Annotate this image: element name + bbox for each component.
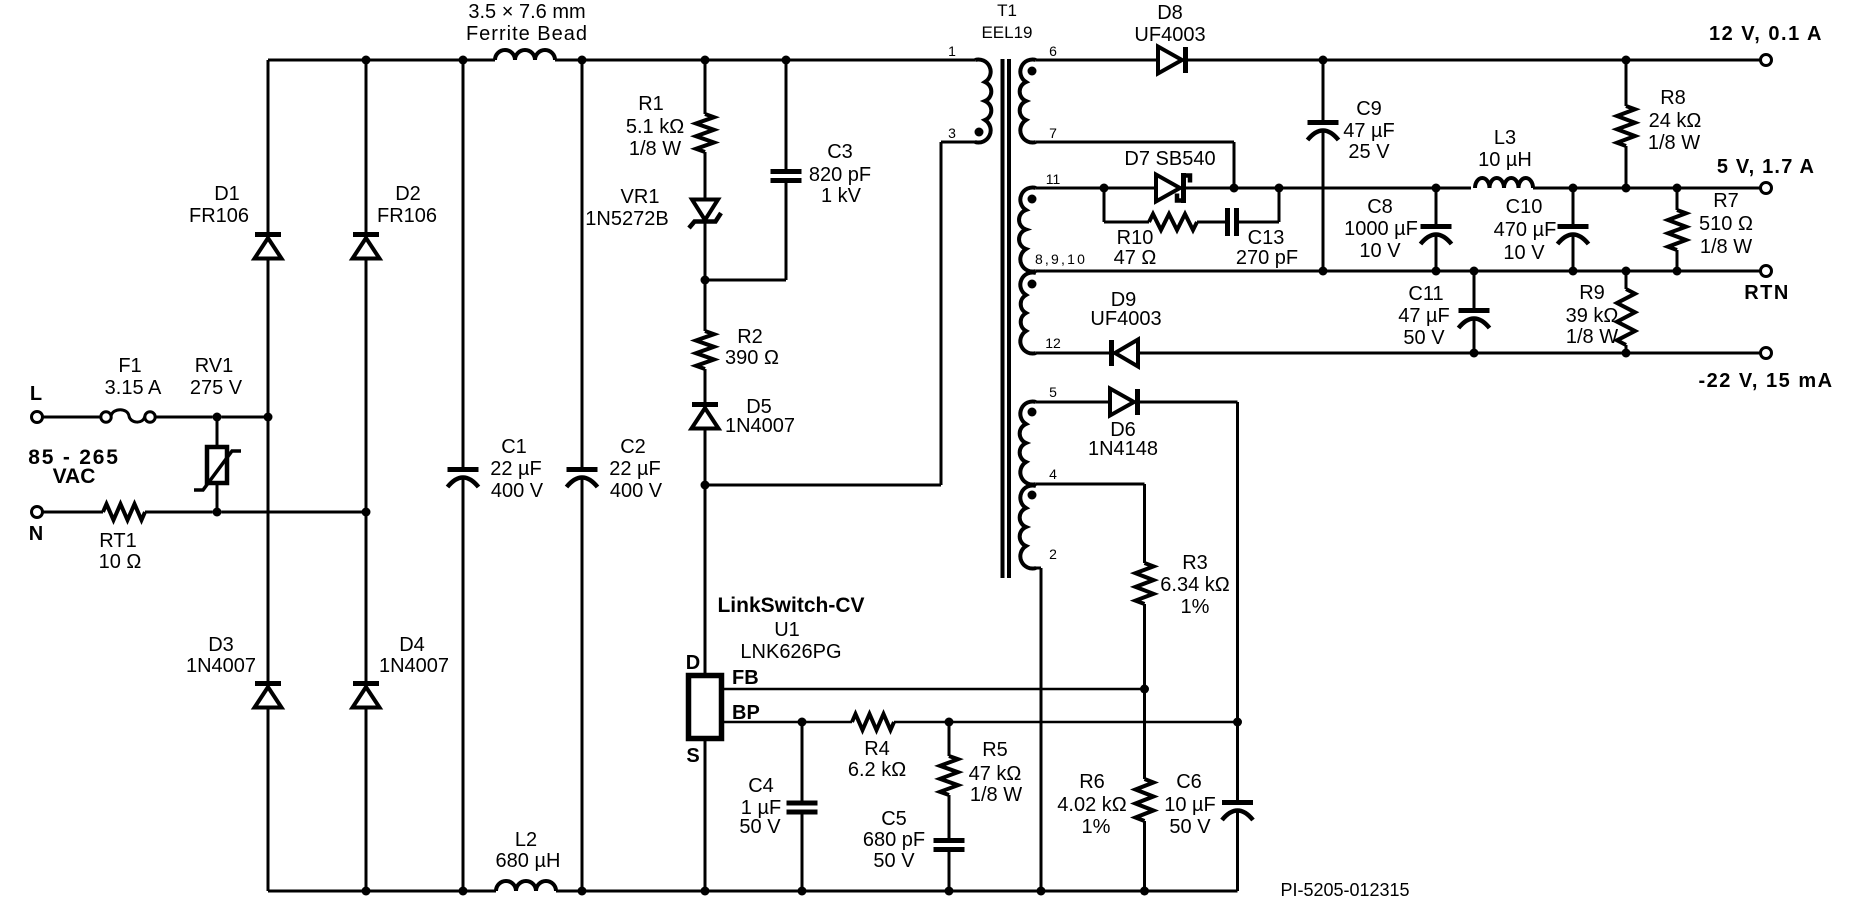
inductor L3 10 uH xyxy=(1475,178,1533,188)
capacitor C9 47 uF 25 V xyxy=(1308,120,1339,125)
svg-text:C6: C6 xyxy=(1176,771,1202,793)
resistor R2 390 ohm xyxy=(696,331,714,369)
svg-text:D3: D3 xyxy=(208,634,234,656)
junction bottom rail / C4 xyxy=(798,887,807,896)
junction 5 V rail / R8 bottom xyxy=(1622,184,1631,193)
junction 5 V rail / R7 xyxy=(1673,184,1682,193)
wire R8 bottom lead to 5 V rail xyxy=(1625,146,1628,188)
resistor R10 47 ohm xyxy=(1149,214,1197,230)
junction -22 V rail / C11 xyxy=(1470,349,1479,358)
terminal 12 V output xyxy=(1761,55,1772,66)
resistor R4 6.2 kohm xyxy=(852,714,894,730)
junction RTN / R9 xyxy=(1622,267,1631,276)
svg-text:47 kΩ: 47 kΩ xyxy=(969,763,1022,785)
inductor L2 680 uH xyxy=(496,881,556,891)
junction bottom rail / C5 xyxy=(945,887,954,896)
wire RV1 bottom lead xyxy=(216,483,219,512)
wire R6 top lead xyxy=(1143,689,1146,779)
wire C10 top lead xyxy=(1572,188,1575,224)
wire pin 6 to D8 xyxy=(1036,59,1158,62)
svg-text:R6: R6 xyxy=(1079,771,1105,793)
wire C3 top lead xyxy=(785,60,788,169)
wire D2 anode to D4 cathode (N node) xyxy=(365,259,368,682)
svg-text:RV1: RV1 xyxy=(195,355,234,377)
resistor R7 510 ohm xyxy=(1668,210,1686,250)
wire R2 to D5 xyxy=(704,369,707,402)
svg-text:8,9,10: 8,9,10 xyxy=(1035,251,1087,267)
svg-text:510 Ω: 510 Ω xyxy=(1699,213,1753,235)
junction BP / R5 xyxy=(945,718,954,727)
svg-text:24 kΩ: 24 kΩ xyxy=(1649,110,1702,132)
wire N node to D2/D4 column xyxy=(222,511,367,514)
svg-text:L3: L3 xyxy=(1494,127,1516,149)
svg-text:5.1 kΩ: 5.1 kΩ xyxy=(626,116,684,138)
svg-text:3.5 × 7.6 mm: 3.5 × 7.6 mm xyxy=(468,1,585,23)
svg-text:UF4003: UF4003 xyxy=(1090,308,1161,330)
wire C10 bottom lead xyxy=(1572,235,1575,271)
svg-text:C10: C10 xyxy=(1506,196,1543,218)
svg-text:S: S xyxy=(686,745,699,767)
wire transformer pin 3 drop xyxy=(940,142,943,485)
svg-text:D8: D8 xyxy=(1157,2,1183,24)
svg-text:50 V: 50 V xyxy=(739,816,781,838)
svg-text:C11: C11 xyxy=(1408,283,1443,305)
capacitor C6 10 uF 50 V xyxy=(1222,800,1253,805)
phasing dot winding 8,9,10-12 xyxy=(1028,280,1037,289)
wire C8 top lead xyxy=(1435,188,1438,224)
phasing dot winding 4-2 xyxy=(1028,491,1037,500)
capacitor C5 680 pF 50 V xyxy=(934,838,965,843)
wire C9 top lead xyxy=(1322,60,1325,120)
resistor R5 47 kohm xyxy=(940,756,958,795)
wire C1 bottom lead xyxy=(462,478,465,891)
wire pin 3 stub xyxy=(941,141,976,144)
svg-text:680 µH: 680 µH xyxy=(496,850,561,872)
svg-text:1N4148: 1N4148 xyxy=(1088,438,1158,460)
wire R10 to C13 xyxy=(1197,221,1225,224)
svg-text:4.02 kΩ: 4.02 kΩ xyxy=(1057,794,1126,816)
diode D6 1N4148 xyxy=(1110,389,1134,416)
wire RV1 top lead xyxy=(216,417,219,447)
wire 5 V rail right of L3 xyxy=(1533,187,1761,190)
diode D9 UF4003 xyxy=(1109,340,1114,366)
wire C13 to snubber return xyxy=(1239,221,1279,224)
svg-text:T1: T1 xyxy=(997,1,1017,20)
wire pin 2 drop to bottom rail xyxy=(1040,568,1043,891)
transformer bias winding pins 5-4 xyxy=(1020,401,1036,484)
svg-text:2: 2 xyxy=(1049,546,1057,562)
wire RTN rail (pins 8,9,10) xyxy=(1036,270,1761,273)
svg-text:RTN: RTN xyxy=(1744,282,1790,304)
svg-text:39 kΩ: 39 kΩ xyxy=(1566,305,1619,327)
wire C2 top lead xyxy=(581,60,584,467)
svg-text:C1: C1 xyxy=(501,436,527,458)
wire D1 anode to D3 cathode (L node) xyxy=(267,259,270,683)
junction BP / C4 xyxy=(798,718,807,727)
svg-text:C4: C4 xyxy=(748,775,774,797)
wire 12 V rail xyxy=(1188,59,1761,62)
junction RTN / R7 xyxy=(1673,267,1682,276)
svg-text:BP: BP xyxy=(732,702,760,724)
junction L node at D1/D3 column xyxy=(264,413,273,422)
svg-text:6.34 kΩ: 6.34 kΩ xyxy=(1160,574,1229,596)
svg-text:22 µF: 22 µF xyxy=(490,458,542,480)
wire C9 bottom lead to RTN rail xyxy=(1322,131,1325,271)
wire snubber left drop xyxy=(1103,188,1106,222)
diode D2 FR106 xyxy=(353,232,379,237)
junction pin 11 node / snubber xyxy=(1100,184,1109,193)
wire C11 bottom lead xyxy=(1473,319,1476,353)
svg-text:LinkSwitch-CV: LinkSwitch-CV xyxy=(717,594,864,617)
wire pin 4 drop to R3 xyxy=(1143,484,1146,563)
junction bottom rail / pin 2 xyxy=(1037,887,1046,896)
svg-text:F1: F1 xyxy=(118,355,141,377)
svg-text:D2: D2 xyxy=(395,183,421,205)
svg-text:10 µF: 10 µF xyxy=(1164,794,1216,816)
varistor RV1 xyxy=(207,447,227,483)
wire D5 anode to drain node and U1 D pin xyxy=(704,429,707,676)
transformer core xyxy=(1001,59,1005,578)
svg-text:R4: R4 xyxy=(864,738,890,760)
svg-text:R9: R9 xyxy=(1579,282,1605,304)
wire D3 anode to bottom rail xyxy=(267,708,270,892)
phasing dot winding 11-8,9,10 xyxy=(1028,195,1037,204)
fuse F1 3.15 A xyxy=(101,412,111,422)
capacitor C1 22 uF 400 V xyxy=(448,467,479,472)
svg-text:U1: U1 xyxy=(774,619,800,641)
ferrite bead 3.5 x 7.6 mm xyxy=(495,50,555,60)
junction N node / RV1 bottom xyxy=(213,508,222,517)
svg-text:R3: R3 xyxy=(1182,552,1208,574)
capacitor C10 470 uF 10 V xyxy=(1558,224,1589,229)
wire BP line left segment xyxy=(722,721,852,724)
junction N node at D2/D4 column xyxy=(362,508,371,517)
wire C1 top lead xyxy=(462,60,465,467)
svg-text:1/8 W: 1/8 W xyxy=(970,784,1022,806)
wire pin 4 row xyxy=(1036,483,1145,486)
wire C6 bottom lead xyxy=(1236,811,1239,891)
svg-text:12 V, 0.1 A: 12 V, 0.1 A xyxy=(1709,23,1823,45)
junction 5 V rail / C8 xyxy=(1432,184,1441,193)
svg-text:R5: R5 xyxy=(982,739,1008,761)
wire R7 bottom lead xyxy=(1676,250,1679,271)
resistor R9 39 kohm xyxy=(1617,289,1635,345)
capacitor C3 820 pF 1 kV xyxy=(771,169,802,174)
phasing dot winding 6-7 xyxy=(1028,67,1037,76)
wire C4 bottom lead xyxy=(801,815,804,892)
svg-text:VAC: VAC xyxy=(53,465,96,488)
wire R5 to C5 xyxy=(948,795,951,838)
junction RTN / C8 xyxy=(1432,267,1441,276)
svg-text:Ferrite Bead: Ferrite Bead xyxy=(466,23,588,45)
capacitor C2 22 uF 400 V xyxy=(567,467,598,472)
svg-text:400 V: 400 V xyxy=(610,480,663,502)
svg-text:25 V: 25 V xyxy=(1348,141,1390,163)
svg-text:3.15 A: 3.15 A xyxy=(105,377,162,399)
junction clamp node (C3 return) xyxy=(701,276,710,285)
svg-text:10 µH: 10 µH xyxy=(1478,149,1532,171)
svg-text:-22 V, 15 mA: -22 V, 15 mA xyxy=(1698,370,1833,392)
wire RT1 to RV1 bottom node xyxy=(145,511,213,514)
svg-text:5: 5 xyxy=(1049,384,1057,400)
diode D1 FR106 xyxy=(255,232,281,237)
svg-text:6.2 kΩ: 6.2 kΩ xyxy=(848,759,906,781)
terminal L (line input) xyxy=(32,412,43,423)
junction RTN / C11 xyxy=(1470,267,1479,276)
svg-text:12: 12 xyxy=(1045,335,1061,351)
wire top rail left segment xyxy=(268,59,495,62)
wire pin 5 to D6 xyxy=(1036,401,1110,404)
capacitor C11 47 uF 50 V xyxy=(1459,308,1490,313)
wire bottom rail right segment xyxy=(556,890,1238,893)
transformer secondary winding pins 11-8,9,10 xyxy=(1019,187,1036,271)
wire R3 bottom to FB node xyxy=(1143,604,1146,689)
svg-text:EEL19: EEL19 xyxy=(981,23,1032,42)
svg-text:22 µF: 22 µF xyxy=(609,458,661,480)
junction FB / R3 / R6 xyxy=(1140,685,1149,694)
wire D6 drop to BP node xyxy=(1236,402,1239,722)
svg-text:RT1: RT1 xyxy=(99,530,136,552)
wire pin 3 return to drain node xyxy=(705,484,941,487)
junction top rail / C3 xyxy=(782,56,791,65)
capacitor C4 1 uF 50 V xyxy=(787,801,818,806)
wire pin 2 stub xyxy=(1033,567,1041,570)
svg-text:50 V: 50 V xyxy=(1169,816,1211,838)
svg-text:50 V: 50 V xyxy=(1403,327,1445,349)
wire pin 7 row xyxy=(1036,141,1234,144)
svg-text:PI-5205-012315: PI-5205-012315 xyxy=(1280,880,1409,900)
IC U1 LNK626PG body xyxy=(689,676,722,739)
wire C3 return to clamp node xyxy=(705,279,786,282)
svg-text:N: N xyxy=(29,523,43,545)
terminal 5 V output xyxy=(1761,183,1772,194)
svg-text:FR106: FR106 xyxy=(189,205,249,227)
wire FB line xyxy=(722,688,1145,691)
svg-text:1N4007: 1N4007 xyxy=(725,415,795,437)
diode D4 1N4007 xyxy=(353,681,379,686)
svg-text:R8: R8 xyxy=(1660,87,1686,109)
junction snubber return xyxy=(1275,184,1284,193)
wire 5 V rail left of L3 xyxy=(1186,187,1471,190)
wire pin 11 to D7 xyxy=(1036,187,1156,190)
svg-text:1N4007: 1N4007 xyxy=(379,655,449,677)
wire C11 top lead xyxy=(1473,271,1476,308)
svg-text:47 µF: 47 µF xyxy=(1343,120,1395,142)
svg-text:47 Ω: 47 Ω xyxy=(1114,247,1157,269)
svg-text:1000 µF: 1000 µF xyxy=(1344,218,1418,240)
wire top rail right segment to transformer pin 1 xyxy=(555,59,975,62)
transformer bias winding pins 4-2 xyxy=(1020,485,1036,568)
svg-text:1N5272B: 1N5272B xyxy=(585,208,668,230)
phasing dot winding 5-4 xyxy=(1028,408,1037,417)
svg-text:UF4003: UF4003 xyxy=(1134,24,1205,46)
wire N terminal to RT1 xyxy=(43,511,104,514)
terminal N (neutral input) xyxy=(32,507,43,518)
junction BP / D6 drop / C6 xyxy=(1233,718,1242,727)
transformer T1 primary winding pins 1-3 xyxy=(975,59,991,142)
svg-text:C9: C9 xyxy=(1356,98,1382,120)
svg-text:50 V: 50 V xyxy=(873,850,915,872)
wire R8 top lead xyxy=(1625,60,1628,106)
junction bottom rail / R6 xyxy=(1140,887,1149,896)
wire pin 7 drop to D7 cathode node xyxy=(1233,142,1236,188)
svg-text:11: 11 xyxy=(1046,171,1061,187)
svg-text:C8: C8 xyxy=(1367,196,1393,218)
junction RTN / C9 xyxy=(1319,267,1328,276)
svg-text:6: 6 xyxy=(1049,43,1057,59)
svg-text:FR106: FR106 xyxy=(377,205,437,227)
wire C8 bottom lead xyxy=(1435,235,1438,271)
wire D6 cathode to BP drop xyxy=(1139,401,1238,404)
svg-text:820 pF: 820 pF xyxy=(809,164,871,186)
wire BP line right segment xyxy=(894,721,1238,724)
svg-text:1/8 W: 1/8 W xyxy=(1700,236,1752,258)
junction top rail / C2 xyxy=(578,56,587,65)
wire R1 top lead xyxy=(704,60,707,114)
junction drain node (pin 3 return) xyxy=(701,481,710,490)
svg-text:47 µF: 47 µF xyxy=(1398,305,1450,327)
svg-text:1%: 1% xyxy=(1082,816,1111,838)
svg-text:R7: R7 xyxy=(1713,190,1739,212)
svg-text:D4: D4 xyxy=(399,634,425,656)
svg-text:10 Ω: 10 Ω xyxy=(99,551,142,573)
diode D8 UF4003 xyxy=(1158,47,1182,74)
junction D7 cathode / pin 7 drop xyxy=(1230,184,1239,193)
svg-text:4: 4 xyxy=(1049,466,1057,482)
junction -22 V rail / R9 xyxy=(1622,349,1631,358)
wire L terminal to fuse F1 xyxy=(43,416,102,419)
svg-text:470 µF: 470 µF xyxy=(1494,219,1557,241)
wire C4 top lead xyxy=(801,722,804,801)
svg-text:7: 7 xyxy=(1049,125,1057,141)
wire fuse F1 to varistor node xyxy=(155,416,213,419)
svg-text:D: D xyxy=(686,652,700,674)
svg-text:R1: R1 xyxy=(638,93,664,115)
wire R9 top lead xyxy=(1625,271,1628,289)
junction bottom rail / D4 xyxy=(362,887,371,896)
diode D5 1N4007 xyxy=(692,402,718,407)
svg-text:LNK626PG: LNK626PG xyxy=(740,641,841,663)
svg-text:680 pF: 680 pF xyxy=(863,829,925,851)
wire D4 anode to bottom rail xyxy=(365,708,368,892)
svg-text:D1: D1 xyxy=(214,183,240,205)
svg-text:D7 SB540: D7 SB540 xyxy=(1124,148,1215,170)
svg-text:270 pF: 270 pF xyxy=(1236,247,1298,269)
svg-text:10 V: 10 V xyxy=(1359,240,1401,262)
wire D1 column top xyxy=(267,60,270,232)
junction RTN / C10 xyxy=(1569,267,1578,276)
resistor R1 5.1 kohm xyxy=(696,114,714,152)
junction 12 V rail / C9 xyxy=(1319,56,1328,65)
wire R9 bottom lead xyxy=(1625,345,1628,353)
wire VR1 to R2 / clamp node xyxy=(704,222,707,331)
svg-text:10 V: 10 V xyxy=(1503,242,1545,264)
wire R6 bottom lead xyxy=(1143,821,1146,891)
svg-text:L: L xyxy=(30,383,42,405)
wire C2 bottom lead xyxy=(581,478,584,891)
svg-text:1/8 W: 1/8 W xyxy=(1566,326,1618,348)
transformer secondary winding pins 8,9,10-12 xyxy=(1020,272,1036,353)
svg-text:1/8 W: 1/8 W xyxy=(629,138,681,160)
thermistor RT1 10 ohm xyxy=(103,504,145,520)
svg-text:1 kV: 1 kV xyxy=(821,185,862,207)
resistor R6 4.02 kohm xyxy=(1136,779,1154,821)
svg-text:C13: C13 xyxy=(1248,227,1285,249)
junction top rail / R1 xyxy=(701,56,710,65)
junction 5 V rail / C10 xyxy=(1569,184,1578,193)
wire R1 to VR1 xyxy=(704,152,707,200)
wire -22 V rail xyxy=(1138,352,1761,355)
wire R5 top lead xyxy=(948,722,951,756)
svg-text:1N4007: 1N4007 xyxy=(186,655,256,677)
svg-text:1%: 1% xyxy=(1181,596,1210,618)
junction top rail / D2 xyxy=(362,56,371,65)
resistor R3 6.34 kohm xyxy=(1136,563,1154,604)
svg-text:1/8 W: 1/8 W xyxy=(1648,132,1700,154)
wire C6 top lead xyxy=(1236,722,1239,800)
junction L node / RV1 top xyxy=(213,413,222,422)
wire snubber to R10 xyxy=(1104,221,1149,224)
svg-text:L2: L2 xyxy=(515,829,537,851)
svg-text:5 V, 1.7 A: 5 V, 1.7 A xyxy=(1717,156,1815,178)
wire D2 column top xyxy=(365,60,368,232)
svg-text:FB: FB xyxy=(732,667,759,689)
svg-text:R2: R2 xyxy=(737,326,763,348)
terminal RTN xyxy=(1761,266,1772,277)
wire RV1 node to bridge column xyxy=(222,416,269,419)
svg-text:C3: C3 xyxy=(827,141,853,163)
wire R7 top lead xyxy=(1676,188,1679,210)
junction top rail / C1 xyxy=(459,56,468,65)
zener diode VR1 1N5272B xyxy=(692,200,718,221)
wire C3 bottom lead xyxy=(785,183,788,280)
resistor R8 24 kohm xyxy=(1617,106,1635,146)
svg-text:275 V: 275 V xyxy=(190,377,243,399)
diode D3 1N4007 xyxy=(255,681,281,686)
wire U1 S pin to bottom rail xyxy=(704,739,707,891)
wire C5 bottom lead xyxy=(948,852,951,891)
svg-text:3: 3 xyxy=(948,125,956,141)
svg-text:VR1: VR1 xyxy=(621,186,660,208)
schottky diode D7 SB540 xyxy=(1156,175,1180,202)
junction 12 V rail / R8 xyxy=(1622,56,1631,65)
svg-text:1: 1 xyxy=(948,43,956,59)
svg-text:390 Ω: 390 Ω xyxy=(725,347,779,369)
phasing dot primary xyxy=(975,128,984,137)
junction bottom rail / C1 xyxy=(459,887,468,896)
svg-text:400 V: 400 V xyxy=(491,480,544,502)
svg-text:C5: C5 xyxy=(881,808,907,830)
terminal -22 V output xyxy=(1761,348,1772,359)
junction bottom rail / C2 xyxy=(578,887,587,896)
capacitor C13 270 pF xyxy=(1225,208,1230,236)
wire pin 12 to D9 xyxy=(1036,352,1109,355)
capacitor C8 1000 uF 10 V xyxy=(1421,224,1452,229)
svg-text:R10: R10 xyxy=(1117,227,1154,249)
svg-text:C2: C2 xyxy=(620,436,646,458)
junction bottom rail / U1 S xyxy=(701,887,710,896)
transformer secondary winding pins 6-7 xyxy=(1020,59,1036,142)
wire snubber return riser xyxy=(1278,188,1281,222)
wire bottom rail left segment xyxy=(268,890,496,893)
